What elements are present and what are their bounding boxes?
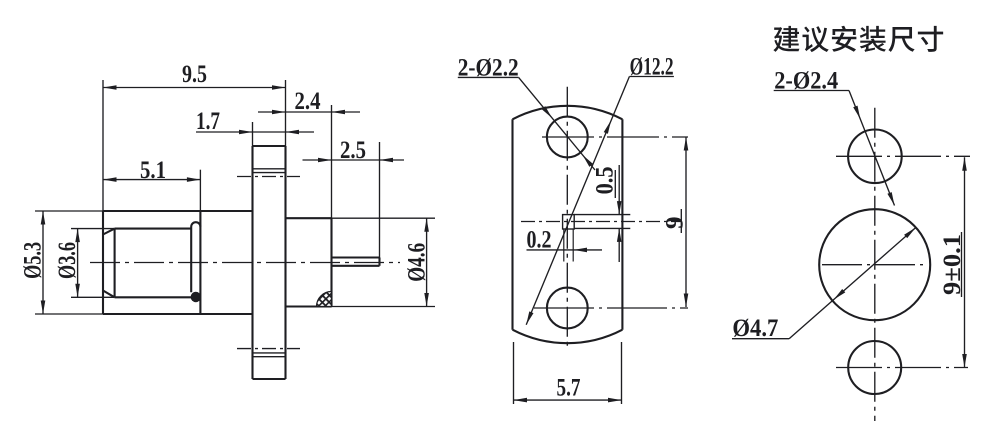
label 2-dia2.4 underline xyxy=(774,90,849,92)
svg-text:0.5: 0.5 xyxy=(592,166,619,194)
label dia4.7 underline xyxy=(732,338,789,340)
ext line dia5.3 top xyxy=(35,210,103,212)
dim 9pm underline xyxy=(961,232,963,297)
flange slot line bot2 xyxy=(253,356,286,358)
top mounting hole xyxy=(547,117,588,158)
mount big hole xyxy=(819,209,930,320)
ext line dia3.6 top xyxy=(71,228,115,230)
label 2-dia2.2 underline xyxy=(458,76,519,78)
rear barrel bottom xyxy=(286,305,332,307)
dim dia5.3 line xyxy=(42,211,44,314)
flange slot line top2 xyxy=(253,172,286,174)
svg-text:0.2: 0.2 xyxy=(527,227,552,254)
dim 9.5 line xyxy=(103,87,286,89)
arrow dia4.7 lower xyxy=(834,289,846,300)
leader 2-dia2.4 xyxy=(849,91,895,206)
flange face right edge xyxy=(621,119,623,329)
mount big hole centerline xyxy=(822,264,927,266)
label dia12.2 underline xyxy=(629,76,674,78)
flange mid centerline xyxy=(521,221,680,223)
arrow dia4.7 upper xyxy=(904,228,916,239)
thread start vertical xyxy=(114,229,116,298)
thread bottom edge xyxy=(115,296,192,298)
svg-text:5.1: 5.1 xyxy=(140,157,166,184)
chamfer top xyxy=(103,229,115,235)
dim 0.5 underline xyxy=(614,170,616,198)
arrow 2-dia2.4 top xyxy=(853,106,860,119)
leader 2-dia2.2 xyxy=(519,77,595,170)
square tail right xyxy=(572,229,574,262)
dim 0.2 arrow xyxy=(574,248,588,253)
svg-text:Ø4.7: Ø4.7 xyxy=(732,315,778,342)
arrow 2-dia2.4 bottom xyxy=(887,192,894,205)
flange left edge xyxy=(251,146,253,379)
dim 0.5 upper tail xyxy=(618,165,620,215)
dim 1.7 line xyxy=(196,131,314,133)
top hole centerline xyxy=(542,136,688,138)
body inner vertical xyxy=(199,211,201,314)
main horizontal centerline xyxy=(90,262,400,264)
svg-text:2.5: 2.5 xyxy=(340,137,366,164)
ext line flange right top xyxy=(285,80,287,146)
arrow at top hole lower edge xyxy=(583,155,593,167)
chamfer bottom xyxy=(103,291,115,298)
ext line dia3.6 bottom xyxy=(71,296,115,298)
dim 5.1 line xyxy=(103,179,200,181)
arrow at top hole upper edge xyxy=(542,106,552,118)
flange bottom arc xyxy=(513,330,623,343)
pin bottom xyxy=(332,265,380,267)
dim 2.4 line xyxy=(258,111,360,113)
flange bottom edge xyxy=(253,378,286,380)
leader dia12.2 xyxy=(526,77,629,325)
body left edge xyxy=(102,211,104,314)
ext line dia5.3 bottom xyxy=(35,313,103,315)
leader dia4.7 xyxy=(789,228,916,339)
ext line flange left top xyxy=(252,122,254,146)
svg-text:Ø4.6: Ø4.6 xyxy=(404,243,431,282)
flange hole centerline bottom xyxy=(237,348,300,350)
svg-text:2.4: 2.4 xyxy=(295,88,321,115)
mount top hole xyxy=(848,130,902,184)
thread top edge xyxy=(115,228,192,230)
mount vertical centerline xyxy=(874,108,876,421)
ext line 0.5 top xyxy=(574,214,630,216)
mount top hole centerline xyxy=(836,155,970,157)
ext 5.7 left xyxy=(513,342,515,404)
svg-text:9.5: 9.5 xyxy=(182,61,207,88)
flange face left edge xyxy=(511,119,513,329)
flange hole centerline top xyxy=(237,176,300,178)
arrow dia12.2 bottom xyxy=(526,311,533,324)
svg-text:5.7: 5.7 xyxy=(557,375,581,402)
svg-text:Ø3.6: Ø3.6 xyxy=(54,242,81,279)
mount bottom hole xyxy=(848,341,901,394)
dim 0.5 lower tail xyxy=(618,228,620,262)
ext line body right top xyxy=(331,105,333,218)
pin top xyxy=(332,256,380,258)
rear barrel right edge xyxy=(330,218,332,306)
flange slot line bot1 xyxy=(253,352,286,354)
bottom mounting hole xyxy=(547,288,588,329)
ext line dia4.6 bottom xyxy=(332,306,436,308)
arrow dia12.2 top xyxy=(604,121,611,134)
ext line 5.1 right xyxy=(199,170,201,211)
ext 5.7 right xyxy=(621,342,623,404)
flange top arc xyxy=(513,106,623,119)
rear barrel top xyxy=(286,217,332,219)
svg-text:Ø5.3: Ø5.3 xyxy=(20,242,47,279)
body bottom edge xyxy=(103,313,253,315)
dim 9 line xyxy=(685,137,687,307)
flange vertical centerline xyxy=(566,87,568,350)
ext line pin tip xyxy=(379,142,381,258)
gasket black dot xyxy=(191,292,201,302)
dim dia3.6 line xyxy=(77,229,79,298)
dim 5.7 line xyxy=(514,399,622,401)
flange right edge xyxy=(284,146,286,379)
ext line left body top xyxy=(102,80,104,211)
gasket capsule xyxy=(191,222,200,292)
svg-text:1.7: 1.7 xyxy=(196,108,220,135)
title text 建议安装尺寸 xyxy=(773,26,943,52)
dim 9 underline xyxy=(680,209,682,233)
ext line 0.5 bottom xyxy=(574,227,630,229)
bottom hole centerline xyxy=(534,307,688,309)
center square xyxy=(563,215,575,229)
pin end xyxy=(378,258,380,266)
mount bottom hole centerline xyxy=(836,367,968,369)
ext line dia4.6 top xyxy=(332,217,436,219)
flange top edge xyxy=(253,145,286,147)
square tail left xyxy=(563,229,565,262)
flange slot line top1 xyxy=(253,168,286,170)
dim 9pm line xyxy=(964,157,966,367)
dim 2.5 line xyxy=(303,159,405,161)
body top edge xyxy=(103,210,253,212)
dim 0.2 line xyxy=(527,249,603,251)
dim dia4.6 line xyxy=(426,218,428,306)
svg-text:9: 9 xyxy=(662,216,689,229)
